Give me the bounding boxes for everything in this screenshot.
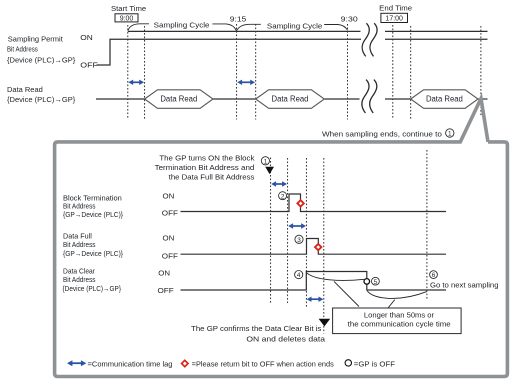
wire upper line after break [385, 30, 488, 32]
svg-text:2: 2 [281, 193, 285, 200]
svg-text:Data Read: Data Read [160, 95, 197, 104]
svg-text:Start Time: Start Time [111, 6, 146, 13]
node circled 3 [295, 235, 303, 244]
svg-text:Data Read: Data Read [272, 95, 309, 104]
marker triangle 1 [265, 167, 274, 174]
hexagon Data Read 2 [256, 90, 325, 109]
node circled 1 (caption) [446, 129, 454, 138]
wire ON line after break [385, 38, 488, 40]
comm-lag arrow top 1 [128, 80, 144, 85]
waveform data full [181, 239, 447, 255]
dashed tick 9:00 a [127, 25, 129, 120]
hexagon Data Read 1 [145, 90, 213, 109]
dashed tick end-of-read [480, 26, 482, 117]
marker GP-off circle on falling edge [364, 279, 370, 285]
svg-text:Bit Address: Bit Address [63, 240, 96, 249]
svg-text:Bit Address: Bit Address [7, 45, 38, 54]
svg-text:Sampling Cycle: Sampling Cycle [154, 21, 210, 30]
sampling permit waveform [97, 39, 362, 65]
svg-text:The GP confirms the Data Clear: The GP confirms the Data Clear Bit is [191, 324, 322, 333]
sampling cycle brace 1 [128, 24, 237, 31]
svg-text:6: 6 [432, 272, 436, 279]
node circled 6 [430, 271, 438, 280]
wire data read baseline segments [96, 98, 488, 100]
svg-text:End Time: End Time [379, 6, 412, 13]
svg-text:Termination Bit Address and: Termination Bit Address and [155, 163, 255, 172]
dashed line box a [270, 158, 272, 304]
svg-text:1: 1 [264, 158, 268, 165]
svg-text:{GP→Device (PLC)}: {GP→Device (PLC)} [63, 210, 124, 219]
dashed line box d [323, 158, 325, 334]
svg-text:{Device (PLC)→GP}: {Device (PLC)→GP} [63, 284, 122, 293]
dashed tick 17:00 a [392, 25, 394, 120]
comm-lag arrow top 2 [237, 80, 255, 85]
legend comm-lag arrow [67, 360, 86, 366]
legend GP-off circle [345, 360, 351, 366]
svg-text:4: 4 [297, 272, 301, 279]
comm-lag arrow box A [271, 181, 287, 186]
svg-text:the communication cycle time: the communication cycle time [348, 319, 451, 328]
svg-text:5: 5 [374, 279, 378, 286]
svg-text:9:15: 9:15 [230, 16, 247, 23]
svg-text:ON: ON [163, 191, 175, 200]
break mark top row [362, 23, 377, 56]
hexagon Data Read 3 [411, 90, 478, 109]
svg-text:Sampling Permit: Sampling Permit [8, 35, 63, 44]
dashed line box c [305, 158, 307, 309]
dashed line box e [426, 150, 428, 299]
time box 17:00 [381, 13, 408, 22]
svg-text:=GP is OFF: =GP is OFF [354, 362, 395, 369]
svg-text:3: 3 [297, 237, 301, 244]
node circled 2 [279, 192, 287, 201]
svg-text:OFF: OFF [158, 286, 175, 295]
svg-text:OFF: OFF [162, 251, 179, 260]
wire cycle-span line [128, 30, 361, 32]
svg-text:{GP→Device (PLC)}: {GP→Device (PLC)} [63, 249, 124, 258]
comm-lag arrow box C [307, 297, 324, 302]
time box 9:00 [115, 14, 138, 22]
brace arc under data clear OFF tail [367, 291, 427, 299]
svg-text:{Device (PLC)→GP}: {Device (PLC)→GP} [7, 95, 76, 104]
svg-text:17:00: 17:00 [385, 16, 403, 23]
dashed tick 9:00 b [144, 26, 146, 120]
brace arc under data clear ON [307, 273, 365, 281]
svg-text:Go to next sampling: Go to next sampling [430, 280, 499, 289]
svg-text:=Please return bit to OFF when: =Please return bit to OFF when action en… [192, 362, 335, 369]
marker triangle 2 [319, 319, 331, 327]
marker red diamond 1 [296, 199, 305, 208]
waveform block termination [181, 194, 447, 212]
sampling cycle brace 2 [237, 24, 348, 30]
legend red diamond [180, 359, 189, 368]
svg-text:the Data Full Bit Address: the Data Full Bit Address [169, 172, 255, 181]
svg-text:1: 1 [448, 131, 452, 138]
comm-lag arrow box B [288, 223, 306, 228]
svg-text:When sampling ends, continue t: When sampling ends, continue to [322, 129, 442, 138]
node circled 5 [372, 277, 380, 285]
node circled 4 [295, 271, 303, 280]
waveform data clear [181, 272, 447, 291]
leader from arc1 to Longer box [334, 281, 359, 306]
svg-text:ON and deletes data: ON and deletes data [246, 334, 326, 343]
svg-text:Data Read: Data Read [426, 95, 463, 104]
svg-text:Longer than 50ms or: Longer than 50ms or [364, 311, 435, 320]
dashed tick 9:30 [347, 24, 349, 120]
svg-text:ON: ON [158, 269, 170, 278]
svg-text:9:30: 9:30 [341, 16, 358, 23]
svg-text:OFF: OFF [80, 61, 98, 70]
note box: Longer than 50ms [333, 308, 462, 334]
svg-text:OFF: OFF [162, 209, 179, 218]
marker red diamond 2 [314, 243, 323, 252]
callout box border with pointer notch [55, 99, 508, 377]
svg-text:ON: ON [163, 234, 175, 243]
svg-text:Bit Address: Bit Address [63, 275, 96, 284]
dashed tick 17:00 b [410, 26, 412, 120]
svg-text:=Communication time lag: =Communication time lag [88, 362, 173, 369]
svg-text:9:00: 9:00 [120, 15, 134, 22]
dashed line box b [287, 158, 289, 303]
svg-text:Data Read: Data Read [7, 85, 43, 94]
svg-text:ON: ON [80, 33, 93, 42]
break mark data-read row [362, 80, 377, 113]
node circled 1 [261, 157, 269, 166]
leader from arc2 to Longer box [388, 300, 395, 308]
dashed tick 9:15 a [236, 24, 238, 120]
svg-text:The GP turns ON the Block: The GP turns ON the Block [159, 154, 254, 163]
svg-text:{Device (PLC)→GP}: {Device (PLC)→GP} [7, 55, 76, 64]
svg-text:Sampling Cycle: Sampling Cycle [267, 21, 322, 30]
dashed tick 9:15 b [255, 24, 257, 120]
